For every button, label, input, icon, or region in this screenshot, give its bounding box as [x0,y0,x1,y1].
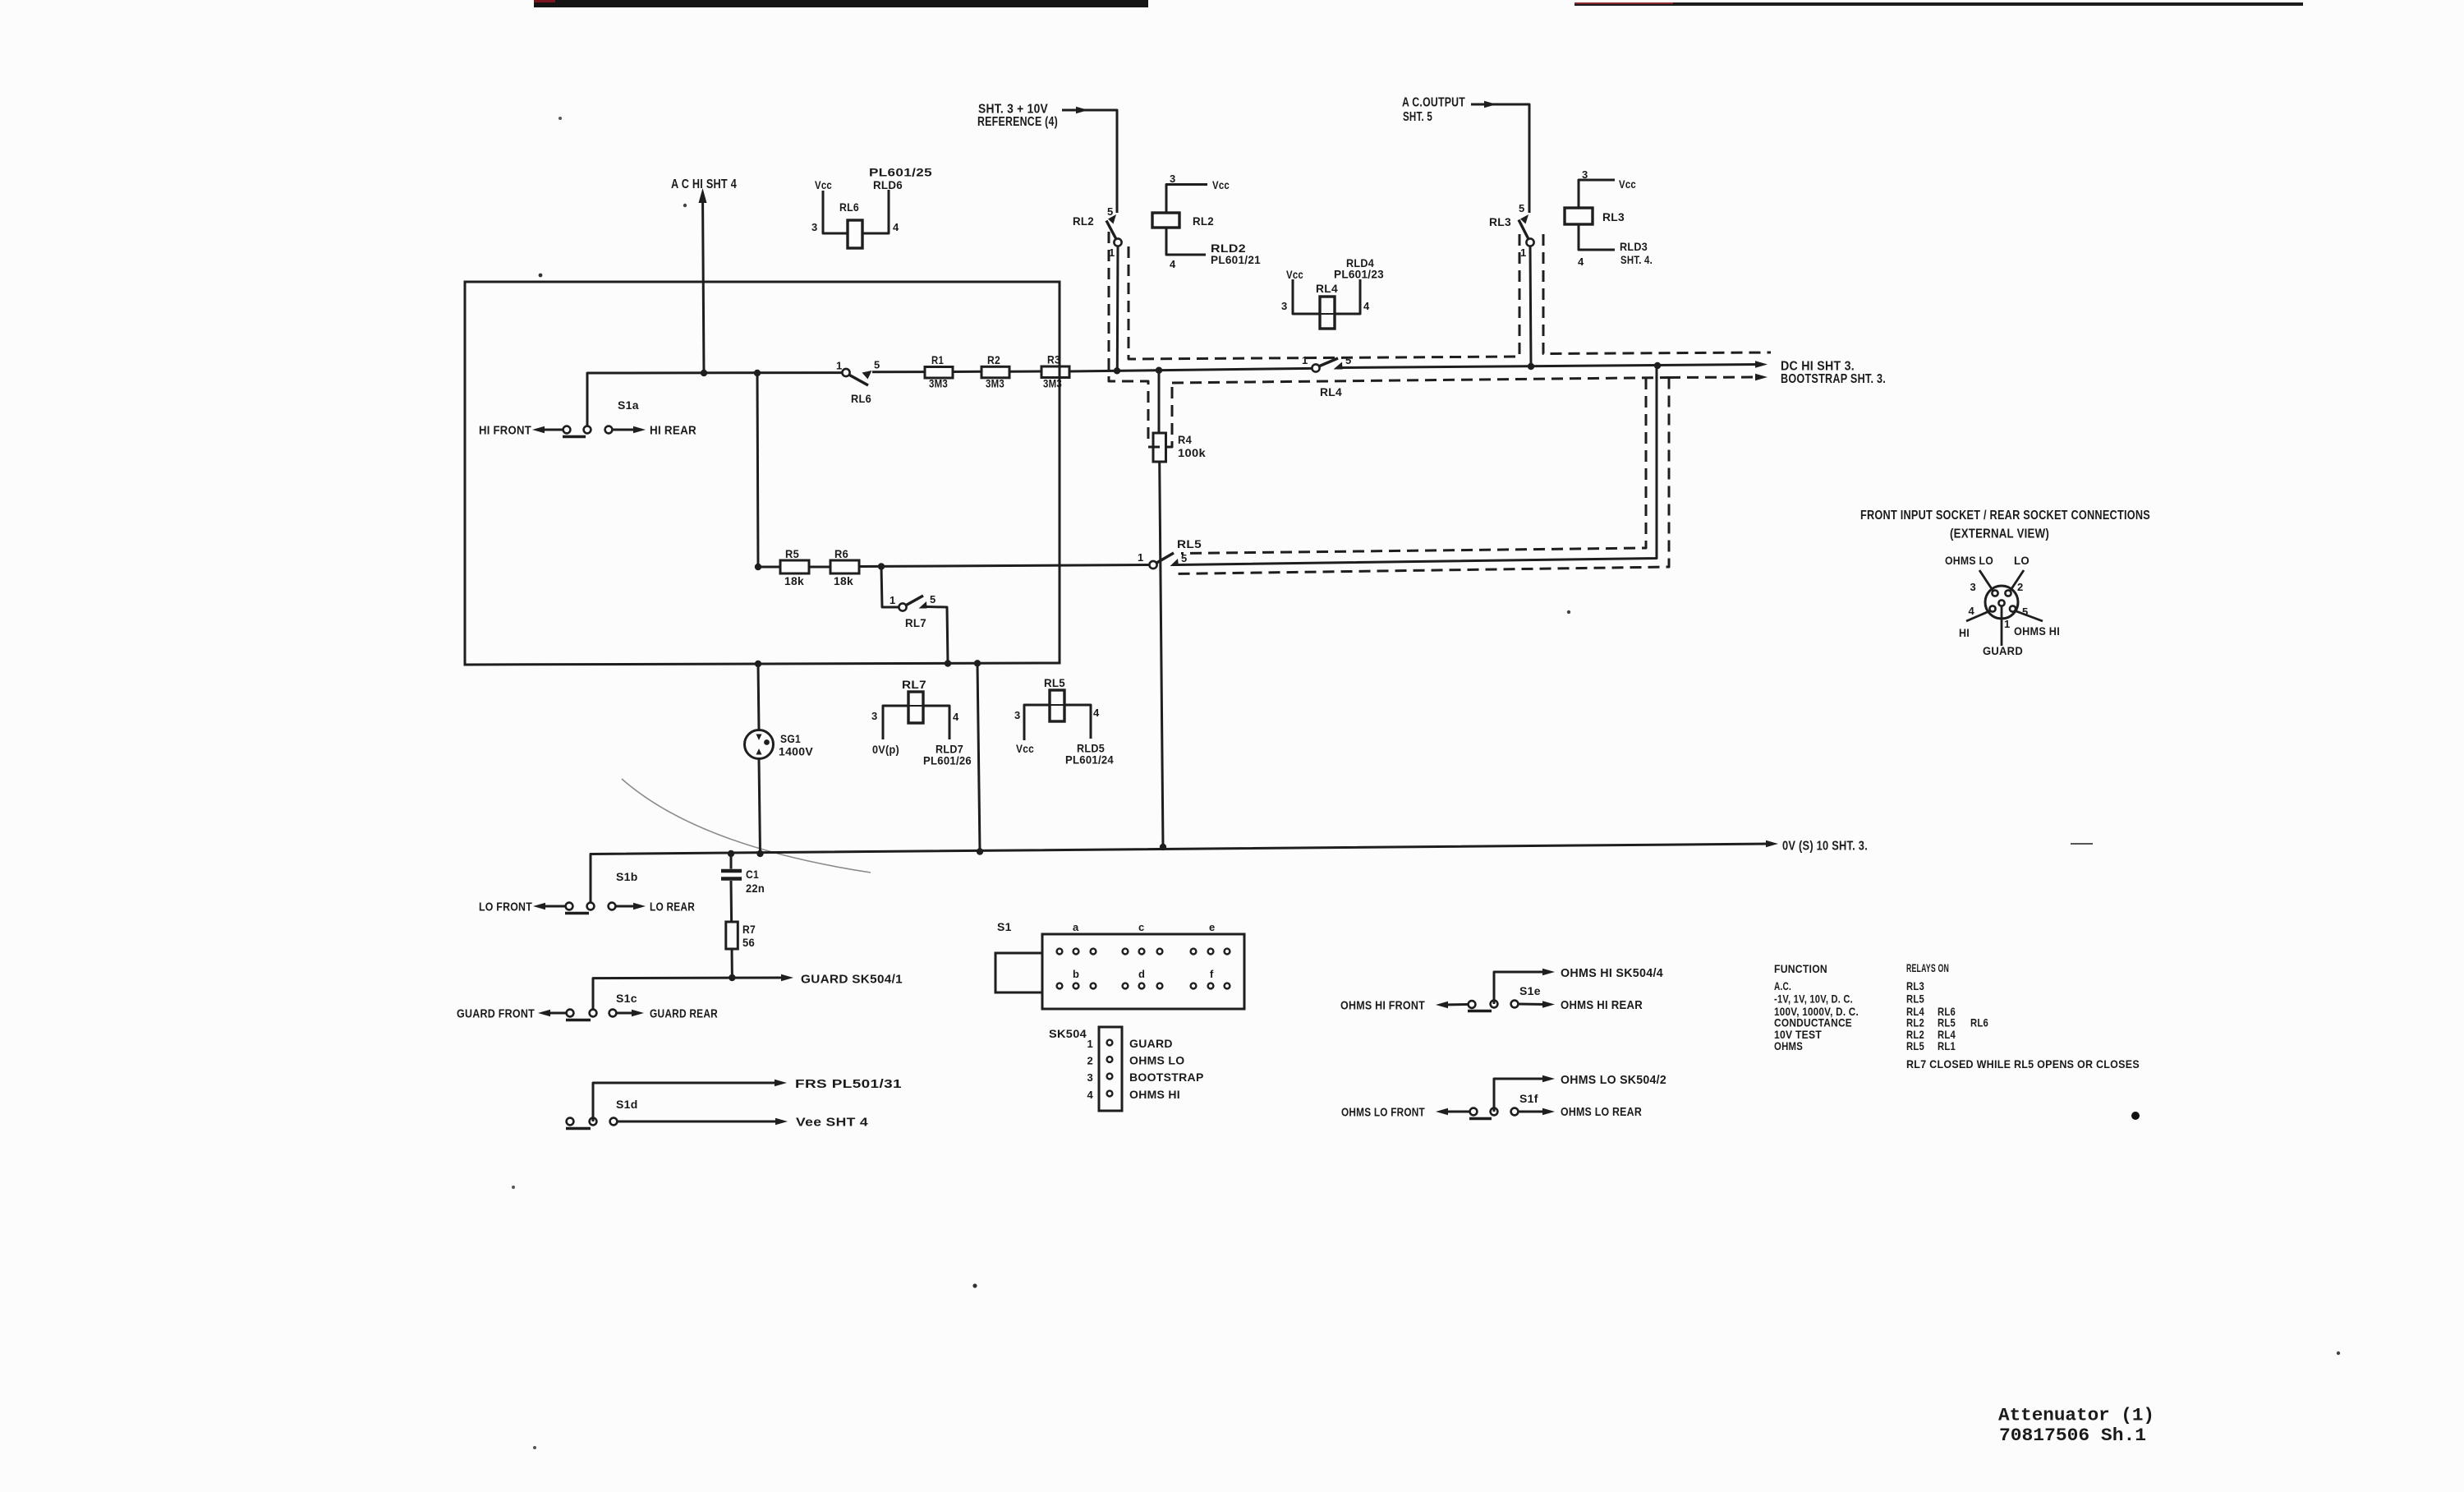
svg-text:HI REAR: HI REAR [650,424,696,438]
socket lead LO (pin 2) [2011,570,2025,591]
wire FRS PL501/31 [593,1083,778,1121]
relay coil RL5 [1024,705,1091,740]
svg-text:c: c [1138,921,1145,933]
svg-text:RL5: RL5 [1044,676,1065,689]
svg-text:SG1: SG1 [780,732,801,745]
svg-text:S1f: S1f [1519,1092,1538,1105]
svg-text:22n: 22n [746,882,765,895]
svg-text:1: 1 [1302,354,1308,366]
svg-text:OHMS: OHMS [1774,1039,1803,1052]
wire guard rail to GUARD SK504/1 [593,978,784,1013]
svg-text:4: 4 [893,221,899,233]
svg-text:PL601/25: PL601/25 [869,166,932,179]
svg-text:SHT. 4.: SHT. 4. [1620,253,1653,266]
svg-text:OHMS LO REAR: OHMS LO REAR [1561,1105,1642,1119]
wire OHMS LO FRONT arrow [1443,1111,1469,1113]
relay coil RL2 [1152,213,1179,228]
svg-text:3M3: 3M3 [1043,376,1062,389]
svg-text:0V (S) 10 SHT. 3.: 0V (S) 10 SHT. 3. [1782,840,1868,854]
svg-text:1: 1 [1520,246,1527,259]
svg-text:OHMS HI: OHMS HI [1129,1088,1180,1101]
svg-text:3: 3 [871,710,878,722]
svg-text:S1b: S1b [616,870,638,883]
svg-text:f: f [1210,968,1214,980]
socket pin 1 hole [1998,600,2004,606]
svg-text:A C HI SHT 4: A C HI SHT 4 [671,177,737,191]
svg-text:R5: R5 [785,547,799,560]
node junction screen rail riser [974,660,981,666]
wire RL5 contact to bootstrap riser [1178,366,1657,565]
relay coil RL3 [1565,208,1593,224]
socket pin 5 hole [2010,606,2016,611]
svg-text:OHMS HI REAR: OHMS HI REAR [1561,998,1643,1012]
wire LO FRONT arrow [540,905,565,908]
wire screen riser (box bottom to 0V rail) [977,663,980,851]
svg-text:GUARD SK504/1: GUARD SK504/1 [801,973,903,987]
svg-text:RL4: RL4 [1320,385,1342,398]
svg-text:GUARD: GUARD [1983,644,2023,657]
svg-text:PL601/24: PL601/24 [1065,753,1114,767]
pins S1 wafer row 1 [1057,949,1063,955]
wire R5-R6 [809,566,830,569]
socket lead GUARD (pin 1) [2001,606,2003,646]
node junction screen riser / 0V rail [977,848,983,854]
svg-text:S1a: S1a [618,398,639,412]
relay contact RL6 (switch on main line) [842,369,849,376]
svg-text:RL6: RL6 [839,200,859,214]
node junction R7 / guard rail [729,974,735,981]
wire A C HI SHT 4 branch [703,194,705,373]
svg-text:18k: 18k [784,574,804,587]
svg-text:5: 5 [1181,552,1188,564]
svg-text:HI: HI [1959,626,1970,639]
svg-text:RL3: RL3 [1602,210,1625,223]
wire R1-R2 [953,371,981,373]
svg-text:4: 4 [1968,605,1974,617]
svg-text:RL5: RL5 [1906,992,1924,1006]
svg-text:BOOTSTRAP: BOOTSTRAP [1129,1071,1204,1084]
svg-text:4: 4 [1363,300,1370,312]
svg-text:Vcc: Vcc [1212,178,1230,191]
wire RL7 contact down to box bottom [926,607,948,664]
resistor R3 3M3 [1041,366,1069,378]
pin 3 SK504 [1107,1074,1113,1080]
node junction SG1 riser / 0V rail [756,850,763,857]
svg-text:e: e [1209,921,1216,933]
wire OHMS LO SK504/2 [1494,1079,1546,1112]
svg-text:S1: S1 [997,920,1012,933]
svg-text:SK504: SK504 [1049,1027,1087,1040]
wire main HI line (S1a riser to RL6) [587,373,843,430]
wire R2-R3 [1009,371,1041,373]
svg-text:2: 2 [1087,1055,1093,1067]
socket lead OHMS LO (pin 3) [1979,570,1993,591]
resistor R2 3M3 [981,366,1009,378]
wire HI FRONT arrow [540,429,563,431]
relay contact RL3 (on AC output riser) [1526,238,1533,246]
svg-text:3: 3 [1970,581,1976,593]
svg-text:56: 56 [742,936,755,949]
node junction C1 branch [728,850,734,857]
enclosure screen box [465,282,1060,665]
svg-text:RL5: RL5 [1906,1039,1924,1052]
svg-text:4: 4 [953,711,959,723]
svg-text:Vcc: Vcc [1016,742,1034,755]
svg-text:A C.OUTPUT: A C.OUTPUT [1402,96,1465,110]
svg-text:RL6: RL6 [1970,1016,1988,1029]
socket pin 4 hole [1989,606,1995,611]
svg-text:R6: R6 [834,547,848,560]
svg-text:OHMS LO SK504/2: OHMS LO SK504/2 [1561,1073,1666,1087]
svg-text:R3: R3 [1047,353,1060,366]
svg-text:PL601/23: PL601/23 [1334,268,1384,281]
relay coil RL6 [848,220,862,248]
svg-text:3M3: 3M3 [986,377,1004,390]
switch S1c [567,1010,574,1017]
wire RL7 branch from R5 line [881,567,899,608]
svg-text:1: 1 [890,594,896,606]
relay contact RL4 (on main line) [1312,364,1319,371]
svg-text:5: 5 [930,593,936,606]
svg-text:1: 1 [1087,1038,1093,1050]
resistor R7 56 [726,922,738,949]
wire OHMS LO REAR arrow [1519,1111,1546,1113]
socket lead OHMS HI (pin 5) [2016,611,2043,622]
svg-text:S1d: S1d [616,1098,638,1111]
svg-text:1: 1 [836,360,843,372]
svg-text:RL7 CLOSED WHILE RL5 OPENS OR: RL7 CLOSED WHILE RL5 OPENS OR CLOSES [1906,1057,2140,1071]
screen dashed (lower rail RL4 area to bootstrap riser) [1172,378,1669,384]
wire RL4 contact to DC HI arrow [1342,365,1760,368]
svg-text:4: 4 [1578,256,1584,268]
svg-text:RLD6: RLD6 [873,178,903,191]
svg-text:RL2: RL2 [1073,214,1094,228]
switch S1e [1469,1001,1476,1008]
screen dashed (RL3 riser right / upper rail to DC HI) [1543,234,1771,354]
svg-text:3M3: 3M3 [929,377,948,390]
svg-text:A.C.: A.C. [1774,979,1791,992]
svg-text:R7: R7 [742,923,756,936]
svg-text:3: 3 [1014,709,1021,721]
node junction +10V reference riser [1114,367,1120,374]
screen dashed (RL2 riser right / upper rail to RL3) [1129,233,1519,359]
node junction A C HI branch [701,370,707,376]
pin 2 SK504 [1107,1057,1113,1062]
svg-text:3: 3 [1170,173,1176,185]
svg-text:RL6: RL6 [851,392,871,405]
svg-text:FRONT INPUT SOCKET / REAR SOCK: FRONT INPUT SOCKET / REAR SOCKET CONNECT… [1860,509,2150,523]
svg-text:5: 5 [1345,354,1352,366]
switch S1a [563,426,571,434]
svg-text:4: 4 [1170,258,1176,270]
wire R4 branch (main line to 0V rail) [1158,371,1161,433]
screen dashed (RL2 riser left) [1109,232,1148,444]
svg-text:100k: 100k [1178,446,1206,459]
resistor R5 18k [780,560,809,573]
svg-text:RL1: RL1 [1938,1039,1956,1052]
wire SHT.3 +10V REFERENCE feed [1062,110,1117,213]
svg-text:Vcc: Vcc [1619,177,1636,191]
svg-text:0V(p): 0V(p) [872,743,899,756]
svg-text:b: b [1073,968,1079,980]
svg-text:SHT. 5: SHT. 5 [1403,110,1432,124]
svg-text:3: 3 [1281,300,1288,312]
screen dashed (bootstrap riser down right) [1175,378,1669,574]
svg-text:4: 4 [1087,1089,1093,1101]
screen dashed (around R4) [1148,384,1172,447]
svg-text:BOOTSTRAP SHT. 3.: BOOTSTRAP SHT. 3. [1781,372,1886,386]
switch S1f [1470,1108,1478,1116]
svg-text:R2: R2 [987,353,1000,366]
svg-text:LO REAR: LO REAR [650,900,695,914]
node junction AC OUTPUT riser [1528,363,1534,370]
wire BOOTSTRAP SHT 3 dashed arrow [1669,376,1758,380]
svg-text:2: 2 [2017,581,2024,593]
socket body circle [1985,586,2018,619]
connector S1 wafer [1042,934,1244,1009]
wire R7 to guard rail [731,949,733,978]
socket pin 2 hole [2005,590,2011,596]
wire HI REAR arrow [613,429,634,431]
node junction R5 line [755,564,761,570]
pin 1 SK504 [1107,1040,1113,1046]
wire A C OUTPUT SHT 5 feed [1471,104,1529,213]
svg-text:4: 4 [1093,707,1100,719]
svg-text:d: d [1138,968,1145,980]
screen dashed (bootstrap riser down left) [1181,378,1646,554]
svg-text:a: a [1073,921,1079,933]
svg-text:3: 3 [1087,1071,1093,1084]
svg-text:Vee SHT 4: Vee SHT 4 [796,1116,868,1130]
relay coil RL7 [883,706,949,739]
wire R3 to RL4 contact [1069,368,1312,371]
svg-text:GUARD REAR: GUARD REAR [650,1007,718,1021]
resistor R6 18k [830,560,859,573]
svg-text:RL7: RL7 [902,678,926,691]
wire OHMS HI FRONT arrow [1443,1003,1468,1006]
switch S1d [567,1118,574,1126]
resistor R1 3M3 [925,367,953,379]
svg-text:RL2: RL2 [1193,214,1214,228]
node junction RL7 branch [878,563,885,569]
svg-text:OHMS LO FRONT: OHMS LO FRONT [1341,1106,1425,1120]
svg-text:S1c: S1c [616,992,637,1005]
svg-text:OHMS HI SK504/4: OHMS HI SK504/4 [1561,966,1663,980]
svg-text:(EXTERNAL VIEW): (EXTERNAL VIEW) [1950,527,2049,541]
spark gap SG1 1400V [758,664,759,730]
svg-text:18k: 18k [834,574,853,587]
svg-text:SHT. 3 + 10V: SHT. 3 + 10V [978,103,1048,117]
relay contact RL5 [1149,561,1156,569]
svg-text:FRS PL501/31: FRS PL501/31 [795,1077,902,1091]
pins S1 wafer row 2 [1057,983,1063,989]
svg-text:GUARD: GUARD [1129,1037,1173,1050]
relay contact RL7 [899,603,906,610]
svg-text:PL601/21: PL601/21 [1211,253,1261,266]
svg-text:Attenuator (1): Attenuator (1) [1998,1405,2154,1426]
svg-text:RL7: RL7 [905,616,926,629]
svg-text:REFERENCE (4): REFERENCE (4) [977,115,1058,129]
svg-text:70817506 Sh.1: 70817506 Sh.1 [1999,1425,2146,1446]
node junction bootstrap return riser [1654,362,1661,369]
svg-text:1: 1 [2004,618,2011,630]
svg-text:-1V, 1V, 10V, D. C.: -1V, 1V, 10V, D. C. [1774,992,1853,1006]
capacitor C1 22n [730,854,733,869]
wire R6 to RL5 contact [859,565,1149,567]
svg-text:Vcc: Vcc [815,178,832,191]
node junction R4 branch [1156,367,1162,374]
connector SK504 [1099,1027,1122,1111]
wire LO REAR arrow [616,905,634,908]
svg-text:LO FRONT: LO FRONT [479,900,532,914]
socket lead HI (pin 4) [1966,611,1990,622]
svg-text:RL3: RL3 [1906,979,1924,992]
wire 0V (S) 10 SHT 3 arrow [1766,840,1778,847]
resistor R4 100k [1153,433,1166,462]
node junction SG1 riser / box bottom [755,661,761,667]
svg-text:DC HI SHT 3.: DC HI SHT 3. [1781,360,1855,374]
svg-text:OHMS LO: OHMS LO [1129,1054,1184,1067]
wire junction to R5 [758,566,780,569]
node junction RL7 wire / box bottom [945,660,951,666]
svg-text:FUNCTION: FUNCTION [1774,962,1827,975]
node junction R5 branch riser [754,370,761,376]
svg-text:5: 5 [1519,202,1525,214]
relay contact RL2 (on +10V riser) [1114,238,1121,246]
svg-text:C1: C1 [746,868,759,881]
svg-text:RELAYS ON: RELAYS ON [1906,961,1949,974]
wire OHMS HI SK504/4 [1494,972,1546,1004]
svg-text:RL4: RL4 [1316,282,1338,295]
svg-text:PL601/26: PL601/26 [923,754,972,767]
svg-text:OHMS LO: OHMS LO [1945,554,1993,567]
wire riser to R5 (from main line) [757,373,758,567]
wire DC HI SHT 3 arrow [1755,361,1768,367]
svg-text:OHMS HI FRONT: OHMS HI FRONT [1340,999,1425,1013]
svg-text:5: 5 [2022,606,2029,618]
wire OHMS HI REAR arrow [1519,1003,1546,1006]
svg-text:1400V: 1400V [779,745,813,758]
svg-text:S1e: S1e [1519,984,1541,997]
svg-text:OHMS HI: OHMS HI [2014,624,2060,638]
svg-text:RL5: RL5 [1177,537,1202,550]
svg-text:3: 3 [811,221,818,233]
wire 0V(S) rail [591,844,1771,906]
pin 4 SK504 [1107,1091,1113,1097]
svg-text:3: 3 [1582,168,1588,181]
svg-text:Vcc: Vcc [1286,268,1303,281]
wire Vee SHT 4 [618,1121,778,1123]
svg-text:GUARD FRONT: GUARD FRONT [457,1007,535,1021]
wire GUARD FRONT arrow [545,1012,566,1015]
svg-text:1: 1 [1138,551,1144,564]
svg-text:LO: LO [2014,554,2030,567]
svg-text:HI FRONT: HI FRONT [479,424,531,438]
svg-text:R1: R1 [931,353,944,366]
svg-text:5: 5 [874,359,880,371]
switch S1b [566,903,573,910]
relay coil RL4 [1293,279,1360,314]
svg-text:RL3: RL3 [1489,215,1511,228]
svg-text:R4: R4 [1178,433,1192,446]
wire RL6 to R1 [872,371,925,373]
node junction R4 branch / 0V rail [1160,844,1166,850]
wire GUARD REAR arrow [617,1012,632,1015]
socket pin 3 hole [1992,590,1997,596]
svg-text:RLD3: RLD3 [1620,240,1648,253]
svg-text:5: 5 [1107,205,1114,218]
